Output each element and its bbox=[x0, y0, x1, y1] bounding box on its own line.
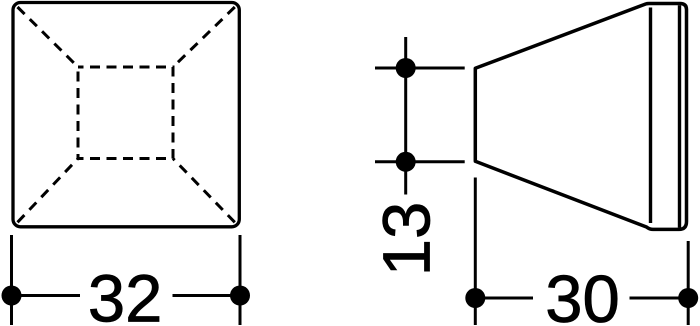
svg-text:30: 30 bbox=[545, 262, 620, 326]
svg-text:32: 32 bbox=[88, 261, 163, 326]
svg-text:13: 13 bbox=[370, 202, 445, 277]
